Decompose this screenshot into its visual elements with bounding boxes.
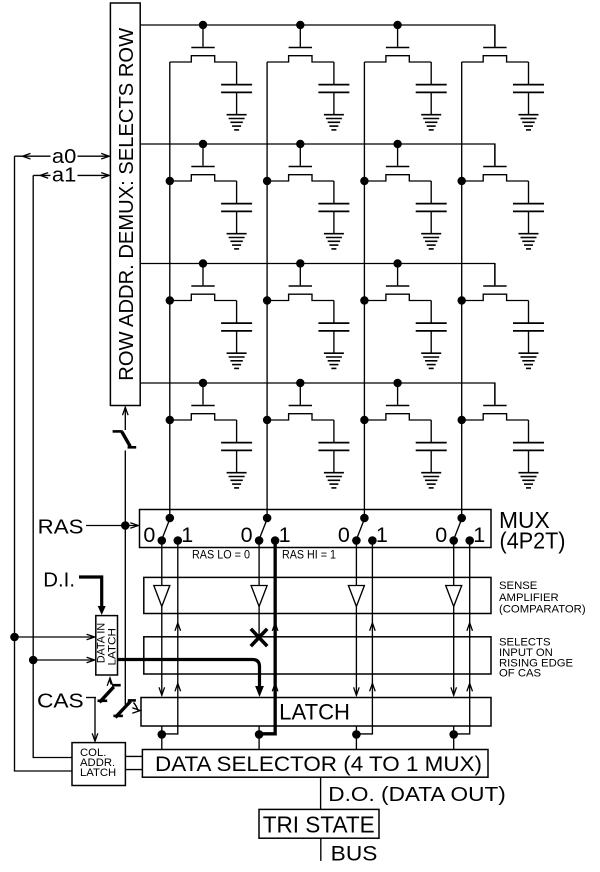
svg-text:OF CAS: OF CAS	[499, 667, 542, 679]
transistor cell R1C4	[494, 25, 496, 47]
wire a0 vertical to column latch	[15, 156, 73, 771]
ground cell R4C4	[519, 472, 539, 474]
ground cell R2C1	[227, 233, 247, 235]
node mux pole 4 contact 0	[449, 536, 458, 545]
svg-text:a1: a1	[52, 164, 76, 186]
capacitor cell R4C3	[430, 420, 432, 443]
capacitor cell R1C2	[333, 62, 335, 85]
svg-text:TRI STATE: TRI STATE	[263, 812, 375, 838]
switch CAS clock to data-in latch	[98, 699, 108, 702]
wire column 3 sense output to latch	[355, 607, 357, 696]
node RAS junction	[121, 521, 130, 530]
node row 3 gate junction col 1	[199, 259, 207, 267]
capacitor cell R4C2	[333, 420, 335, 443]
wire CAS branch down to column latch	[94, 698, 96, 741]
wire column 1 latch feedback arrows	[175, 623, 181, 631]
node row 1 gate junction col 1	[199, 21, 207, 29]
svg-text:CAS: CAS	[37, 689, 84, 712]
transistor cell R1C1	[202, 25, 204, 47]
wire data out	[320, 777, 322, 809]
mux 4P2T box	[140, 510, 492, 548]
wire a1 branch into data-in latch	[33, 659, 94, 661]
node bitline-source junction R4C3	[360, 416, 368, 424]
node column 1 latch output junction	[158, 730, 167, 739]
switch RAS clock (to row demux)	[113, 430, 123, 433]
capacitor cell R2C3	[430, 181, 432, 204]
node mux pole 3 common	[360, 514, 369, 523]
wire RAS to mux	[86, 525, 138, 527]
node row 1 gate junction col 3	[393, 21, 401, 29]
wire column 2 latch to data selector	[258, 726, 260, 750]
data selector box	[142, 750, 488, 778]
svg-text:RAS: RAS	[38, 515, 84, 538]
transistor cell R4C3	[397, 383, 399, 405]
node bitline-source junction R2C3	[360, 177, 368, 185]
transistor cell R4C4	[494, 383, 496, 405]
ground cell R1C1	[227, 114, 247, 116]
svg-text:0: 0	[338, 523, 350, 547]
wire column 4 sense output to latch	[453, 607, 455, 696]
X mark disconnected sense output	[251, 629, 267, 646]
capacitor cell R3C4	[528, 301, 530, 324]
wire RAS branch up to demux switch	[124, 451, 126, 526]
wire a1 vertical to column latch	[33, 175, 72, 757]
wire bold write path from data-in latch	[118, 660, 260, 687]
wire column 3 sense line upper	[355, 541, 357, 586]
node column 3 latch output junction	[352, 730, 361, 739]
ground cell R1C3	[421, 114, 441, 116]
svg-text:LATCH: LATCH	[80, 767, 116, 779]
capacitor cell R3C3	[430, 301, 432, 324]
wire bitline column 3	[363, 62, 365, 518]
capacitor cell R1C4	[528, 62, 530, 85]
wire column 4 latch feedback line	[454, 541, 470, 734]
wire a0 branch into data-in latch	[15, 636, 95, 638]
svg-text:ROW ADDR. DEMUX: SELECTS ROW: ROW ADDR. DEMUX: SELECTS ROW	[115, 27, 138, 380]
wire row 3 word line	[140, 264, 495, 286]
transistor cell R4C2	[299, 383, 301, 405]
switch mux pole 2 lever	[259, 519, 267, 540]
svg-text:1: 1	[279, 523, 291, 547]
wire column 1 sense output to latch	[161, 607, 163, 696]
node mux pole 4 contact 1	[465, 536, 474, 545]
wire column 2 bold selected line	[259, 541, 275, 734]
wire column 1 latch feedback line	[162, 541, 178, 734]
transistor cell R1C3	[397, 25, 399, 47]
svg-text:1: 1	[376, 523, 388, 547]
wire column 3 latch feedback line	[356, 541, 372, 734]
sense amplifier box	[144, 577, 491, 613]
capacitor cell R3C1	[236, 301, 238, 324]
capacitor cell R2C4	[528, 181, 530, 204]
wire column 3 latch feedback arrows	[370, 623, 376, 631]
svg-text:(4P2T): (4P2T)	[500, 528, 566, 554]
svg-text:1: 1	[181, 523, 193, 547]
svg-text:RAS HI = 1: RAS HI = 1	[282, 547, 336, 561]
capacitor cell R1C3	[430, 62, 432, 85]
svg-text:0: 0	[435, 523, 447, 547]
node mux pole 1 contact 1	[174, 536, 183, 545]
wire row 1 word line	[140, 25, 495, 47]
ground cell R2C4	[519, 233, 539, 235]
node row 4 gate junction col 3	[393, 379, 401, 387]
node row 3 gate junction col 2	[296, 259, 304, 267]
wire arrow into latch left edge	[134, 703, 139, 711]
wire CAS line	[86, 697, 96, 699]
wire column 2 latch feedback arrows	[272, 623, 278, 631]
node bitline-source junction R4C1	[166, 416, 174, 424]
node mux pole 1 common	[166, 514, 175, 523]
wire col addr latch to data selector lower	[125, 769, 142, 771]
node column 2 latch output junction	[255, 730, 264, 739]
svg-text:(COMPARATOR): (COMPARATOR)	[499, 604, 586, 616]
wire column 4 latch feedback arrows	[467, 623, 473, 631]
node bitline-source junction R2C2	[263, 177, 271, 185]
ground cell R3C2	[324, 352, 344, 354]
node bitline-source junction R3C1	[166, 296, 174, 304]
wire RAS branch down to latch clock switch	[124, 526, 126, 705]
node bitline-source junction R3C4	[458, 296, 466, 304]
svg-text:D.I.: D.I.	[43, 569, 75, 592]
wire arrow into demux bottom	[124, 409, 126, 431]
capacitor cell R1C1	[236, 62, 238, 85]
transistor cell R3C4	[494, 264, 496, 286]
node a1 branch to data-in latch	[29, 656, 38, 665]
wire column 4 sense line upper	[453, 541, 455, 586]
transistor cell R4C1	[202, 383, 204, 405]
wire column 1 sense line upper	[161, 541, 163, 586]
wire column 3 latch to data selector	[355, 726, 357, 750]
node bitline-source junction R2C1	[166, 177, 174, 185]
svg-text:AMPLIFIER: AMPLIFIER	[499, 592, 559, 604]
ground cell R1C4	[519, 114, 539, 116]
node mux pole 2 contact 0	[255, 536, 264, 545]
node bitline-source junction R4C2	[263, 416, 271, 424]
svg-text:0: 0	[241, 523, 253, 547]
ground cell R1C2	[324, 114, 344, 116]
svg-text:DATA SELECTOR (4 TO 1 MUX): DATA SELECTOR (4 TO 1 MUX)	[155, 753, 482, 776]
wire row 4 word line	[140, 383, 495, 405]
wire a0 input	[15, 155, 51, 157]
svg-text:LATCH: LATCH	[279, 700, 350, 725]
wire to bus	[320, 838, 322, 861]
data-in latch box	[96, 616, 118, 675]
wire bitline column 1	[169, 62, 171, 518]
column address latch box	[72, 743, 125, 786]
svg-text:BUS: BUS	[331, 842, 378, 866]
ground cell R3C3	[421, 352, 441, 354]
switch mux pole 4 lever	[454, 519, 462, 540]
transistor cell R2C1	[202, 144, 204, 166]
node row 4 gate junction col 1	[199, 379, 207, 387]
ground cell R4C3	[421, 472, 441, 474]
wire col addr latch to data selector upper	[125, 755, 142, 757]
wire column 2 latch feedback line	[259, 541, 275, 734]
svg-text:1: 1	[473, 523, 485, 547]
node mux pole 2 contact 1	[271, 536, 280, 545]
transistor cell R2C3	[397, 144, 399, 166]
svg-text:RAS LO = 0: RAS LO = 0	[192, 547, 250, 561]
row address demux box	[110, 3, 140, 406]
node row 2 gate junction col 1	[199, 140, 207, 148]
capacitor cell R4C4	[528, 420, 530, 443]
svg-text:0: 0	[143, 523, 155, 547]
node a0 branch to data-in latch	[10, 633, 19, 642]
switch mux pole 1 lever	[162, 519, 170, 540]
node mux pole 1 contact 0	[158, 536, 167, 545]
transistor cell R3C1	[202, 264, 204, 286]
capacitor cell R2C1	[236, 181, 238, 204]
node row 2 gate junction col 2	[296, 140, 304, 148]
transistor cell R3C2	[299, 264, 301, 286]
node mux pole 3 contact 1	[368, 536, 377, 545]
wire bitline column 2	[266, 62, 268, 518]
switch latch clock	[113, 715, 123, 718]
ground cell R2C2	[324, 233, 344, 235]
ground cell R2C3	[421, 233, 441, 235]
ground cell R4C1	[227, 472, 247, 474]
wire column 2 sense output to X	[258, 607, 260, 638]
node mux pole 2 common	[263, 514, 272, 523]
wire a1 to demux	[78, 174, 110, 176]
transistor cell R3C3	[397, 264, 399, 286]
op-amp sense amplifier A4	[446, 586, 462, 607]
wire a0 to demux	[78, 155, 110, 157]
node row 1 gate junction col 2	[296, 21, 304, 29]
transistor cell R2C2	[299, 144, 301, 166]
node row 2 gate junction col 3	[393, 140, 401, 148]
ground cell R4C2	[324, 472, 344, 474]
transistor cell R2C4	[494, 144, 496, 166]
ground cell R3C1	[227, 352, 247, 354]
wire D.I. bold input	[79, 577, 102, 607]
node row 4 gate junction col 2	[296, 379, 304, 387]
wire arrow into data-in latch bottom	[110, 680, 111, 685]
svg-text:D.O. (DATA OUT): D.O. (DATA OUT)	[328, 783, 506, 806]
op-amp sense amplifier A3	[348, 586, 364, 607]
capacitor cell R4C1	[236, 420, 238, 443]
wire bitline column 4	[461, 62, 463, 518]
node column 4 latch output junction	[449, 730, 458, 739]
wire column 4 latch to data selector	[453, 726, 455, 750]
ground cell R3C4	[519, 352, 539, 354]
capacitor cell R3C2	[333, 301, 335, 324]
latch box	[141, 698, 491, 727]
wire column 1 latch to data selector	[161, 726, 163, 750]
selects input on rising edge of CAS box	[144, 637, 491, 674]
wire column 2 sense line upper	[258, 541, 260, 586]
switch mux pole 3 lever	[356, 519, 364, 540]
node bitline-source junction R2C4	[458, 177, 466, 185]
node row 3 gate junction col 3	[393, 259, 401, 267]
svg-text:LATCH: LATCH	[107, 628, 119, 665]
svg-text:SENSE: SENSE	[499, 580, 538, 592]
node mux pole 4 common	[457, 514, 466, 523]
capacitor cell R2C2	[333, 181, 335, 204]
wire row 2 word line	[140, 144, 495, 166]
node bitline-source junction R3C2	[263, 296, 271, 304]
node bitline-source junction R3C3	[360, 296, 368, 304]
node bitline-source junction R4C4	[458, 416, 466, 424]
node mux pole 3 contact 0	[352, 536, 361, 545]
tri state box	[259, 809, 379, 838]
op-amp sense amplifier A1	[154, 586, 170, 607]
svg-text:DATA IN: DATA IN	[95, 623, 107, 663]
wire a1 input	[33, 174, 50, 176]
transistor cell R1C2	[299, 25, 301, 47]
op-amp sense amplifier A2	[251, 586, 267, 607]
